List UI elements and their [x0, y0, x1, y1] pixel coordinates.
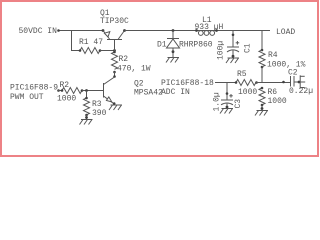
svg-text:1000, 1%: 1000, 1% — [267, 61, 306, 70]
svg-text:C1: C1 — [243, 43, 252, 53]
inductor L1 — [195, 16, 224, 35]
resistor R6 — [259, 87, 287, 110]
svg-text:PIC16F88-9: PIC16F88-9 — [10, 84, 58, 93]
node LOAD label — [276, 28, 295, 37]
svg-text:D1: D1 — [157, 41, 167, 50]
resistor R4 — [259, 31, 306, 83]
svg-text:PWM OUT: PWM OUT — [10, 93, 44, 102]
resistor R3 — [84, 91, 107, 120]
svg-text:1000: 1000 — [238, 88, 257, 97]
svg-text:470, 1W: 470, 1W — [117, 65, 151, 74]
wire R5 to divider node — [256, 82, 262, 84]
svg-text:LOAD: LOAD — [276, 28, 295, 37]
svg-text:R6: R6 — [268, 88, 278, 97]
svg-text:R4: R4 — [268, 51, 278, 60]
svg-text:50VDC IN: 50VDC IN — [19, 27, 58, 36]
node PIC16F88-18 ADC IN label — [161, 79, 214, 97]
svg-text:390: 390 — [92, 109, 107, 118]
capacitor C3 1.0u — [213, 83, 244, 112]
svg-text:MPSA42: MPSA42 — [134, 89, 163, 98]
node 50VDC IN label — [19, 27, 58, 36]
svg-text:100µ: 100µ — [216, 41, 225, 60]
capacitor C2 0.22u — [288, 69, 313, 97]
transistor Q2 — [104, 77, 164, 105]
svg-text:TIP30C: TIP30C — [100, 17, 129, 26]
diode D1 — [157, 29, 213, 57]
svg-text:R5: R5 — [237, 70, 247, 79]
svg-text:1000: 1000 — [57, 95, 76, 104]
wire ADC IN to R5 — [215, 82, 236, 84]
wire 50VDC rail right — [125, 30, 271, 32]
svg-text:RHRP860: RHRP860 — [179, 41, 213, 50]
wire R1 to base node — [100, 49, 116, 52]
svg-text:1.0µ: 1.0µ — [213, 92, 222, 111]
svg-text:ADC IN: ADC IN — [161, 88, 190, 97]
svg-text:R3: R3 — [92, 100, 102, 109]
capacitor C1 100u — [216, 31, 252, 61]
wire 50VDC rail left — [57, 29, 103, 32]
ground below C1 — [226, 58, 239, 63]
ground below Q2 emitter — [109, 105, 122, 110]
resistor R2 1000 — [57, 81, 83, 104]
node PIC16F88-9 PWM OUT label — [10, 84, 58, 103]
ground below D1 — [166, 58, 179, 63]
ground below R6 — [255, 111, 268, 116]
svg-text:R2: R2 — [60, 81, 70, 90]
svg-text:Q2: Q2 — [134, 80, 144, 89]
transistor Q1 — [100, 9, 129, 52]
svg-text:1000: 1000 — [268, 97, 287, 106]
svg-text:R2: R2 — [119, 55, 129, 64]
resistor R5 — [235, 70, 258, 97]
svg-text:0.22µ: 0.22µ — [289, 87, 313, 96]
page border frame — [0, 0, 319, 157]
wire R2 to Q2 collector — [113, 72, 116, 78]
ground below C3 — [220, 109, 233, 114]
svg-text:R1 47: R1 47 — [79, 38, 103, 47]
svg-text:C3: C3 — [234, 99, 243, 109]
wire R1 tee down — [72, 31, 81, 51]
wire R2 to Q2 base — [82, 89, 103, 92]
resistor R2 470 1W — [112, 51, 151, 74]
resistor R1 — [79, 38, 104, 54]
chassis terminal right of C2 — [298, 75, 306, 88]
ground below R3 — [80, 120, 93, 125]
svg-text:C2: C2 — [288, 69, 298, 78]
svg-text:PIC16F88-18: PIC16F88-18 — [161, 79, 214, 88]
wire PWM OUT to R2 — [57, 89, 62, 92]
wire divider node to C2 — [262, 81, 290, 84]
svg-text:933 µH: 933 µH — [195, 23, 224, 32]
